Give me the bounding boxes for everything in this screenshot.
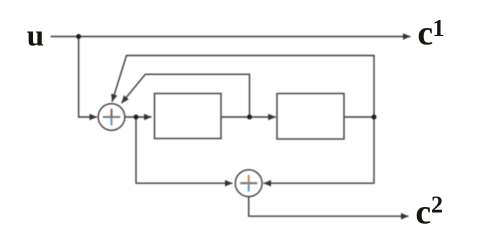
- svg-text:2: 2: [431, 192, 443, 218]
- svg-text:c: c: [416, 193, 432, 232]
- svg-text:c: c: [418, 14, 434, 53]
- svg-text:u: u: [27, 17, 44, 52]
- svg-text:1: 1: [433, 16, 445, 42]
